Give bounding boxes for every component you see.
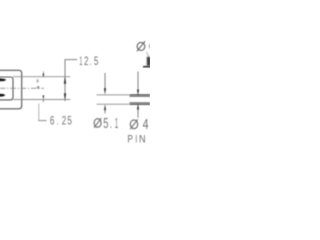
lower contact wedge (solid black): [0, 94, 5, 97]
svg-text:5: 5: [103, 115, 108, 132]
svg-text:.: .: [57, 114, 59, 128]
upper contact wedge (solid black): [0, 78, 6, 81]
label dia 5.1: digits: [103, 115, 118, 132]
upper extension line (top edge extended right): [13, 76, 70, 78]
svg-text:2: 2: [84, 54, 89, 68]
dim 6.25 lower arrowhead at bottom line: [42, 95, 44, 99]
dim 6.25 upper arrowhead at top line: [43, 74, 45, 78]
dia 5.1 upper arrow stem: [104, 73, 106, 90]
pin upper outline darker right segment: [130, 94, 150, 96]
pin lower outline darker right segment: [130, 103, 150, 105]
dim 12.5 lower arrowhead above bottom line: [64, 93, 66, 99]
svg-text:5: 5: [67, 114, 72, 128]
lower extension line (bottom edge extended right): [13, 99, 70, 101]
centerline (dash-dot) through connector: [0, 87, 44, 89]
dia 4 lower arrowhead: [137, 103, 139, 110]
connector inner cavity outline: [0, 77, 13, 100]
centerline bold dot: [37, 86, 39, 88]
dim 12.5 stub below bottom line: [64, 100, 66, 102]
top right diameter symbol (partial dimension, cut off): [137, 41, 145, 51]
dim 12.5 leader horizontal to text: [65, 59, 78, 61]
dia 5.1 upper arrowhead: [104, 88, 106, 94]
svg-text:6: 6: [50, 114, 55, 128]
pin inner step upper line (dark): [130, 95, 151, 97]
top right leader line fragment (slanted, faint): [146, 52, 148, 56]
dia 4 lower arrow stem: [137, 109, 139, 118]
dim text 12.5: [79, 54, 98, 68]
label dia 5.1: diameter symbol: [94, 118, 101, 128]
label PIN: [127, 133, 145, 145]
dim 6.25 leader horizontal: [38, 120, 46, 122]
dia 4 upper arrow stem: [137, 72, 139, 91]
svg-text:1: 1: [79, 54, 82, 68]
svg-text:4: 4: [143, 117, 149, 133]
svg-text:I: I: [135, 133, 137, 145]
svg-text:5: 5: [94, 54, 99, 68]
svg-text:.: .: [90, 54, 92, 68]
dim 12.5 upper arrowhead below top line: [64, 77, 66, 84]
top right thick arrow bar pointing down (cut off at edge): [147, 57, 151, 66]
svg-text:N: N: [139, 133, 146, 145]
pin lower outline line (full, light): [97, 103, 151, 105]
svg-text:P: P: [127, 133, 133, 145]
dim 6.25 arrow stub below bottom line: [42, 100, 44, 102]
dim 12.5 dimension line vertical: [64, 60, 66, 100]
dia 5.1 lower arrowhead: [104, 104, 106, 110]
svg-text:2: 2: [62, 114, 67, 128]
dim 6.25 leader vertical: [38, 104, 40, 121]
pin inner step lower line (dark): [130, 102, 151, 104]
pin upper outline line (full, light): [97, 94, 151, 96]
top right horizontal edge segment (cut off): [143, 66, 151, 68]
top right cut-off character fragment: [149, 44, 151, 48]
dim text 6.25: [50, 114, 72, 128]
dia 5.1 lower arrow stem: [104, 110, 106, 114]
stray smudge above centerline: [37, 79, 39, 82]
connector body outer outline (front view, cut off at left edge): [0, 70, 22, 109]
svg-text:.: .: [110, 115, 112, 132]
label dia 4: diameter symbol: [130, 119, 138, 129]
svg-text:1: 1: [115, 115, 118, 132]
dim 6.25 upper arrow stem: [42, 71, 44, 76]
dia 4 upper arrowhead: [137, 90, 139, 96]
